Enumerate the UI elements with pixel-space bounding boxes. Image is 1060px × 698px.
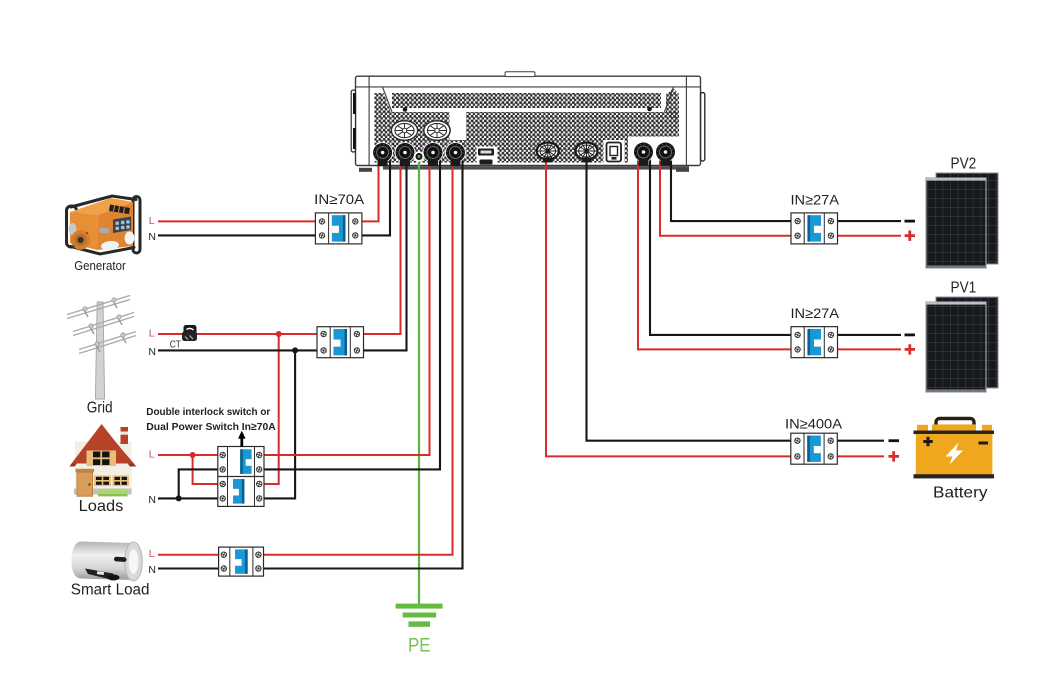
- gland generator: [372, 142, 393, 163]
- wire grid N branch to interlock: [264, 350, 295, 498]
- CT clamp: [182, 325, 197, 341]
- minus sign battery: [889, 439, 900, 442]
- inverter bottom strip: [383, 166, 689, 169]
- inverter top vent band: [392, 93, 661, 108]
- minus sign PV2: [905, 220, 916, 223]
- svg-text:IN≥27A: IN≥27A: [791, 305, 840, 321]
- wire PV1 minus right: [838, 334, 902, 336]
- wire smart load L left: [158, 554, 219, 556]
- gland battery N: [576, 143, 598, 160]
- wire PV2 plus: [660, 152, 791, 236]
- wire grid L branch to interlock: [264, 334, 279, 484]
- grid insulators: [83, 298, 125, 346]
- inverter right bracket: [701, 93, 705, 162]
- inverter right foot: [676, 168, 689, 172]
- wire PV1 plus: [638, 152, 791, 349]
- gland loads: [423, 142, 444, 163]
- wire loads L branch: [193, 455, 218, 484]
- junction grid L: [276, 331, 282, 337]
- PV2 front panel: [926, 178, 986, 268]
- smart load heater icon: [71, 542, 142, 582]
- green PE port: [414, 151, 425, 162]
- wire smart load N left: [158, 567, 219, 569]
- vent gap right glands: [628, 137, 679, 164]
- wire generator L right: [362, 152, 379, 221]
- breaker Q6 PV1 IN&#8805;27A: [791, 327, 838, 358]
- gland battery L: [537, 143, 559, 160]
- breaker Q4 smart load: [219, 547, 264, 576]
- svg-text:Smart Load: Smart Load: [71, 581, 150, 598]
- wire loads L: [158, 454, 218, 456]
- svg-text:Dual Power Switch In≥70A: Dual Power Switch In≥70A: [146, 421, 276, 433]
- svg-text:L: L: [149, 215, 155, 227]
- wire generator N right: [362, 152, 390, 235]
- wire grid L left: [158, 333, 317, 335]
- switch S1: [607, 143, 622, 162]
- PV2 back panel: [936, 173, 998, 264]
- inverter left foot: [359, 168, 372, 172]
- wire interlock to inverter L: [264, 152, 430, 455]
- inverter U1 body: [356, 76, 701, 165]
- svg-text:N: N: [148, 346, 156, 358]
- wire loads N branch: [179, 469, 218, 498]
- vent gap usb area: [477, 147, 498, 164]
- wire PV2 minus right: [838, 220, 902, 222]
- usb port: [478, 149, 494, 165]
- fan 2: [424, 121, 450, 141]
- wire PE green vertical: [418, 157, 420, 605]
- wire generator N left: [158, 234, 315, 236]
- inverter vent panel slants: [383, 87, 674, 112]
- svg-text:IN≥27A: IN≥27A: [791, 191, 840, 207]
- wire PV2 minus: [671, 152, 791, 221]
- wire PV1 plus right: [838, 348, 902, 350]
- svg-text:N: N: [148, 564, 156, 576]
- wire generator L left: [158, 220, 315, 222]
- wire grid L right: [364, 152, 401, 334]
- bolt hole right: [647, 107, 652, 112]
- junction loads N: [176, 495, 182, 501]
- wire loads N: [158, 497, 218, 499]
- wire interlock to inverter N: [264, 152, 440, 469]
- breaker Q5 PV2 IN&#8805;27A: [791, 213, 838, 244]
- wire battery plus: [546, 151, 791, 456]
- plus sign PV1: [905, 344, 915, 354]
- inverter top-center handle: [505, 72, 535, 77]
- inverter left bracket: [351, 90, 355, 152]
- gland smart load: [445, 142, 466, 163]
- battery icon: [914, 419, 995, 479]
- wire smart load L right: [264, 152, 453, 555]
- gland PV1: [633, 142, 654, 163]
- wire smart load N right: [264, 152, 463, 569]
- svg-text:N: N: [148, 494, 156, 506]
- svg-text:L: L: [149, 449, 155, 461]
- breaker Q1 generator IN&#8805;70A: [315, 213, 362, 244]
- svg-text:Generator: Generator: [74, 258, 126, 273]
- PV1 front panel: [926, 302, 986, 392]
- gland PV2: [655, 142, 676, 163]
- note arrow: [238, 431, 246, 447]
- plus sign battery: [889, 451, 900, 461]
- minus sign PV1: [905, 333, 916, 336]
- svg-text:PV1: PV1: [951, 280, 977, 297]
- breaker Q3 double interlock switch: [218, 447, 264, 507]
- wire PV1 minus: [650, 152, 791, 335]
- wire battery minus: [587, 151, 791, 441]
- svg-text:Loads: Loads: [79, 498, 124, 515]
- svg-text:Battery: Battery: [933, 485, 987, 502]
- svg-text:N: N: [148, 231, 156, 243]
- bolt hole left: [403, 107, 408, 112]
- inverter main vent area: [375, 112, 680, 163]
- svg-text:IN≥400A: IN≥400A: [785, 415, 843, 431]
- wire battery minus right: [837, 440, 884, 442]
- PV1 back panel: [936, 297, 998, 388]
- grid pole icon: [67, 296, 136, 400]
- junction loads L: [190, 452, 196, 458]
- svg-text:PE: PE: [408, 636, 431, 657]
- svg-text:PV2: PV2: [951, 156, 977, 173]
- vent left wedge: [375, 93, 392, 112]
- svg-text:L: L: [149, 548, 155, 560]
- gland grid: [395, 142, 416, 163]
- wire PV2 plus right: [838, 235, 902, 237]
- wire grid N left: [158, 349, 317, 351]
- svg-text:Grid: Grid: [87, 400, 113, 417]
- svg-text:IN≥70A: IN≥70A: [314, 191, 365, 207]
- fan 1: [391, 121, 417, 141]
- gland mount tabs: [378, 158, 671, 167]
- junction grid N: [292, 347, 298, 353]
- vent gap switch area: [604, 140, 625, 163]
- loads house icon: [69, 424, 136, 496]
- wire grid N right: [364, 152, 407, 350]
- vent gap top-center: [450, 112, 467, 140]
- breaker Q7 battery IN&#8805;400A: [791, 433, 838, 464]
- breaker Q2 grid: [317, 327, 364, 358]
- PE ground symbol: [396, 604, 443, 627]
- svg-text:CT: CT: [170, 340, 181, 351]
- svg-text:L: L: [149, 328, 155, 340]
- generator icon: [67, 196, 141, 254]
- svg-text:Double interlock switch or: Double interlock switch or: [146, 406, 270, 418]
- wire battery plus right: [837, 455, 884, 457]
- plus sign PV2: [905, 231, 915, 241]
- vent right wedge: [666, 89, 679, 126]
